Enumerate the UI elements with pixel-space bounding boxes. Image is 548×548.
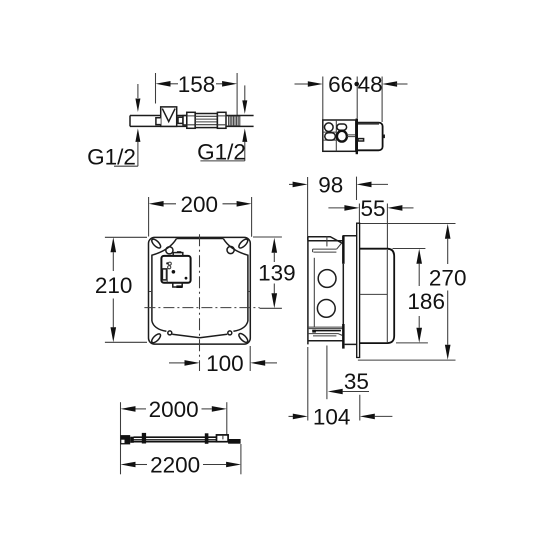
svg-text:35: 35 [344, 369, 369, 394]
dim 55 extension lines [359, 204, 387, 249]
dim 98 line + arrows [289, 183, 293, 185]
internal shelf lines [323, 132, 337, 140]
module latch [162, 269, 166, 280]
small tab [358, 139, 364, 141]
top clamp bracket [308, 237, 343, 244]
boss circle TR [227, 246, 234, 253]
dim 270 line [447, 239, 449, 345]
bottom clamp bracket [308, 327, 343, 329]
clip 2 [205, 433, 209, 444]
threaded tube [195, 114, 217, 128]
cable lines [134, 436, 217, 438]
cover cap top view [358, 123, 383, 151]
knockout circle TL [325, 123, 334, 132]
svg-text:186: 186 [407, 289, 445, 314]
dim 2200 line [135, 464, 147, 466]
knockout circles [318, 270, 336, 288]
dim 66/48 line + arrows [295, 83, 308, 85]
dim 104 extension lines [308, 347, 360, 421]
dim 186 extension lines [393, 249, 428, 343]
svg-text:98: 98 [318, 172, 343, 197]
dim 100 extension lines [249, 346, 251, 371]
valve left notch [156, 118, 161, 125]
dim 104 line + arrows [289, 415, 293, 417]
module dots [166, 262, 168, 264]
dim 158 arrow right [222, 81, 237, 87]
pipe [130, 116, 254, 127]
svg-text:139: 139 [258, 261, 296, 286]
dim 158 line right segment [216, 83, 222, 85]
corner slot BL [150, 332, 162, 344]
dim 158 arrow left [156, 81, 171, 87]
spindle double line [347, 135, 356, 137]
G1/2 right pointer arrows [244, 85, 246, 100]
clamp jaw top (thick) [342, 235, 345, 263]
svg-text:48: 48 [358, 72, 383, 97]
divider [335, 120, 337, 151]
dim 158 extension line left [155, 73, 157, 104]
centerline above box [326, 236, 328, 246]
dim 55 line + arrows [328, 207, 344, 209]
centerline horizontal [144, 307, 259, 309]
valve seat BR (thick) [337, 131, 347, 142]
dim 210 extension lines [105, 237, 147, 342]
side ticks [149, 291, 250, 293]
centerline below box [326, 346, 328, 400]
inner opening [152, 239, 248, 322]
dim 2000 line [135, 408, 146, 410]
dim 139 line [273, 253, 275, 294]
knockout ellipse TR [337, 124, 347, 130]
svg-text:55: 55 [360, 196, 385, 221]
union nut 1 [187, 112, 195, 128]
wall flange plate [357, 223, 360, 357]
boss circle TL [166, 247, 173, 254]
left connector block [120, 435, 130, 444]
svg-text:158: 158 [178, 72, 216, 97]
collar top/bottom [343, 236, 357, 345]
svg-text:210: 210 [95, 273, 133, 298]
dim 66/48 extension lines [323, 77, 382, 123]
cover top edge dark [358, 123, 379, 125]
dim 158 extension line right [236, 73, 238, 116]
svg-text:G1/2: G1/2 [87, 145, 136, 170]
inner opening bottom with hooks [152, 321, 167, 331]
dim 2200 right extension [240, 444, 242, 474]
G1/2 left pointer arrows [137, 84, 139, 98]
dim 100 line [169, 362, 185, 364]
corner slot TR [237, 238, 249, 250]
flange edge (thick) [356, 118, 358, 154]
shared left extension line [120, 402, 122, 474]
dim 139 extension lines [253, 237, 282, 308]
centerline vertical [199, 234, 201, 371]
dim 158 line left segment [171, 83, 179, 85]
right connector [217, 435, 229, 442]
dim 98 extension lines [308, 177, 357, 241]
right end block [228, 439, 241, 444]
dim 2000 right extension [226, 402, 228, 439]
dim 186 line [418, 264, 420, 328]
electronics module [161, 256, 190, 283]
cover seam [360, 293, 388, 295]
knockout BL [325, 133, 336, 140]
corner slot BR [237, 332, 249, 344]
clamp jaw bottom (thick) [342, 324, 345, 349]
union nut 2 [217, 112, 226, 128]
threaded end (hatch) [228, 116, 241, 126]
cover tangent edge [386, 250, 388, 342]
svg-text:2200: 2200 [150, 453, 200, 478]
right notch [383, 135, 385, 137]
box left edge [307, 237, 309, 345]
outer plate [149, 237, 251, 344]
svg-text:200: 200 [181, 192, 219, 217]
valve body with check-valve V [161, 107, 177, 127]
dim 200 extension lines [149, 197, 252, 237]
dim 210 line [112, 252, 114, 327]
svg-text:100: 100 [206, 351, 244, 376]
svg-text:104: 104 [313, 404, 351, 429]
svg-text:G1/2: G1/2 [197, 139, 246, 164]
dim 200 line [164, 203, 237, 205]
svg-text:2000: 2000 [149, 397, 199, 422]
box right edge [342, 264, 344, 324]
box inner wall [313, 258, 315, 327]
dim 270 extension lines [358, 224, 456, 361]
corner slot TL [150, 238, 162, 250]
clip 1 [142, 433, 146, 444]
svg-text:270: 270 [429, 265, 467, 290]
svg-text:66: 66 [328, 72, 353, 97]
cover cap [360, 249, 394, 343]
dim 35 leader [343, 391, 369, 393]
connector piece [178, 117, 183, 123]
box outline (top view) [323, 120, 356, 151]
dot at shared extension [354, 82, 359, 87]
